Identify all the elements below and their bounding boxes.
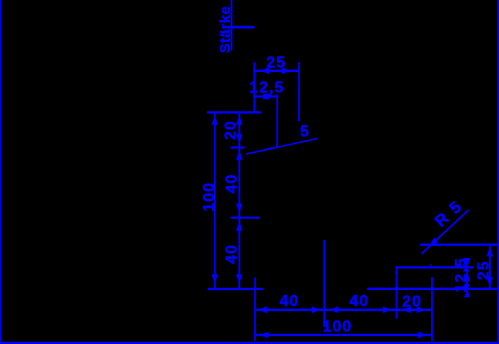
svg-text:20: 20: [223, 120, 240, 140]
svg-text:40: 40: [349, 293, 369, 310]
svg-text:Stärke: Stärke: [217, 6, 234, 53]
svg-text:40: 40: [224, 244, 241, 264]
svg-text:12,5: 12,5: [453, 257, 470, 292]
svg-text:100: 100: [201, 182, 218, 212]
svg-text:40: 40: [224, 174, 241, 194]
svg-text:20: 20: [402, 294, 422, 311]
svg-text:25: 25: [475, 261, 492, 281]
svg-text:5: 5: [300, 123, 310, 140]
svg-text:25: 25: [266, 54, 286, 71]
svg-text:100: 100: [323, 319, 353, 336]
svg-text:12,5: 12,5: [249, 80, 284, 97]
svg-text:40: 40: [280, 293, 300, 310]
